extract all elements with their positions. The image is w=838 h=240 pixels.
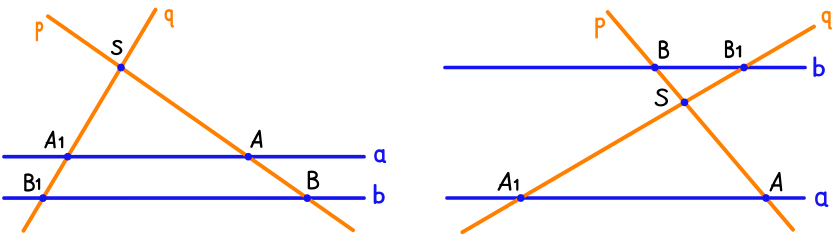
line a (right, blue horizontal) — [447, 196, 804, 200]
label B1 (left) — [25, 175, 39, 191]
point B1 (right, on line b) — [740, 64, 748, 72]
label A1 (left) — [45, 132, 62, 147]
point A1 (left, on line a) — [64, 153, 72, 161]
line q (right, orange transversal through B1, S, A1) — [462, 27, 814, 233]
point B (right, on line b) — [651, 64, 659, 72]
point A (left, on line a) — [244, 153, 252, 161]
label S (left) — [112, 41, 121, 54]
label B1 (right) — [726, 41, 740, 56]
line q (left, orange transversal through S, A1, B1) — [24, 10, 156, 231]
point A (right, on line a) — [762, 194, 770, 202]
label S (right) — [656, 90, 667, 106]
label p (left) — [37, 23, 42, 40]
line p (right, orange transversal through B, S, A) — [608, 12, 793, 230]
label B (left) — [309, 172, 318, 189]
label b (right) — [815, 58, 824, 76]
point A1 (right, on line a) — [517, 194, 525, 202]
label B (right) — [660, 42, 668, 58]
label A (right) — [771, 173, 782, 190]
point S (right, intersection of p and q) — [681, 99, 689, 107]
line b (right, blue horizontal) — [445, 66, 805, 70]
line a (left, blue horizontal) — [4, 155, 364, 159]
point B (left, on line b) — [303, 194, 311, 202]
label A1 (right) — [499, 173, 518, 190]
point B1 (left, on line b) — [39, 194, 47, 202]
line b (left, blue horizontal) — [4, 196, 364, 200]
label b (left) — [375, 185, 383, 203]
label q (right) — [823, 12, 831, 28]
label q (left) — [166, 10, 173, 26]
label p (right) — [597, 19, 604, 38]
point S (left, intersection of p and q) — [117, 64, 125, 72]
line p (left, orange transversal through S, A, B) — [48, 16, 353, 230]
label A (left) — [251, 131, 261, 147]
label a (left) — [375, 150, 384, 161]
label a (right) — [816, 193, 827, 206]
